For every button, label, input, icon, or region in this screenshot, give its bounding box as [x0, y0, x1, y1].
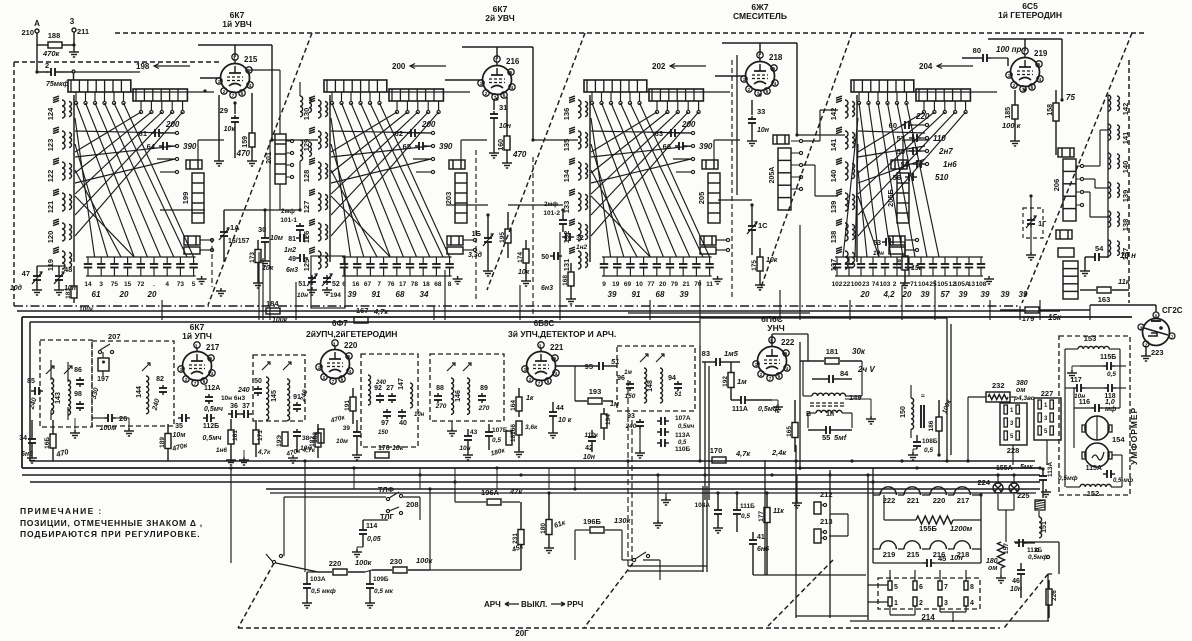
svg-text:39: 39 [959, 290, 968, 299]
capacitor 35 10m [178, 417, 182, 419]
svg-text:67: 67 [364, 281, 372, 288]
svg-text:2ч V: 2ч V [857, 365, 875, 374]
capacitor 64 [159, 145, 163, 147]
svg-text:19: 19 [612, 281, 620, 288]
trimmer 48 [58, 273, 60, 276]
svg-text:УМФОРМЕР: УМФОРМЕР [1129, 407, 1139, 465]
lamp 225 [1009, 483, 1019, 493]
gang link dash line [211, 238, 213, 287]
bus line 4 [270, 492, 1036, 494]
coil 119 [62, 251, 65, 269]
svg-text:194: 194 [330, 292, 341, 299]
svg-text:84: 84 [840, 369, 849, 378]
svg-text:203: 203 [444, 192, 453, 205]
capacitor 107A [657, 420, 661, 422]
bus line 1 [22, 474, 1040, 476]
wires can1 [50, 360, 52, 380]
svg-text:110: 110 [933, 134, 946, 143]
choke 150 core bars [920, 405, 922, 428]
svg-text:0,5-мф: 0,5-мф [1113, 477, 1134, 484]
svg-text:192: 192 [722, 376, 729, 387]
svg-text:141: 141 [829, 139, 838, 152]
svg-text:197: 197 [97, 376, 109, 383]
dashed bottom slant 2 [584, 563, 633, 628]
svg-text:164: 164 [510, 400, 517, 411]
resistor 168 [568, 272, 574, 286]
svg-text:81: 81 [288, 236, 296, 243]
tube 217 6K7 1st IF amp [183, 352, 212, 381]
svg-text:198: 198 [136, 62, 150, 71]
svg-text:270: 270 [435, 403, 447, 410]
svg-text:100к: 100к [355, 558, 373, 567]
coil 142 (output) [1108, 95, 1111, 111]
contacts 201 [290, 139, 293, 142]
svg-text:ом: ом [1016, 387, 1026, 394]
svg-text:47к: 47к [509, 487, 523, 496]
svg-text:34: 34 [420, 290, 429, 299]
wire 222 anode top [771, 334, 773, 344]
svg-text:390: 390 [699, 142, 713, 151]
capacitor 107B 0.5mf [488, 429, 490, 432]
svg-text:10н: 10н [499, 123, 512, 130]
svg-text:18: 18 [423, 281, 431, 288]
svg-text:113А: 113А [1047, 462, 1054, 477]
wire bottom left switch [276, 563, 318, 572]
shield dashed vertical S3 [731, 60, 733, 300]
svg-text:149: 149 [849, 393, 862, 402]
coil 122 [62, 162, 65, 180]
capacitor 80 100pr [979, 57, 983, 59]
svg-text:157: 157 [1003, 543, 1010, 554]
svg-text:10н: 10н [583, 454, 596, 461]
choke 150 [911, 398, 914, 429]
capacitor 118 [1104, 387, 1108, 389]
svg-text:0,5мф: 0,5мф [1028, 554, 1048, 561]
capacitor 39 10m [356, 429, 358, 432]
svg-text:5мк: 5мк [1020, 464, 1033, 471]
coil 141 [845, 131, 848, 149]
tube 216 6K7 2nd RF amp [483, 66, 512, 95]
svg-text:97: 97 [381, 420, 389, 427]
svg-text:4,2: 4,2 [882, 290, 895, 299]
coil 132 [578, 223, 581, 241]
switch contacts ARCh [632, 558, 635, 561]
motor 154 lower [1085, 443, 1109, 467]
wires 205A to S4 coils [803, 140, 820, 142]
svg-text:217: 217 [957, 496, 970, 505]
coil 135 [578, 131, 581, 149]
svg-text:112А: 112А [204, 385, 220, 392]
svg-text:20: 20 [860, 290, 870, 299]
svg-text:51: 51 [611, 357, 619, 366]
resistor 220 100k [333, 569, 347, 575]
svg-text:77: 77 [647, 281, 655, 288]
coil 133 [578, 193, 581, 211]
trimmer capacitor row [342, 256, 452, 258]
switch contacts [74, 101, 77, 104]
svg-text:202: 202 [652, 62, 666, 71]
motor 154 upper [1085, 416, 1109, 440]
svg-text:1к: 1к [526, 395, 534, 402]
svg-text:143: 143 [55, 392, 62, 404]
resistor 181 30k [825, 358, 839, 364]
switch contacts 2 [139, 110, 142, 113]
capacitor 97 150 [386, 409, 388, 412]
capacitor 114 0.05 [362, 527, 364, 530]
capacitor 62 [407, 132, 411, 134]
coil pack 205 [708, 173, 720, 223]
svg-text:76: 76 [387, 281, 395, 288]
svg-text:36: 36 [230, 403, 238, 410]
connector pin 8 [964, 581, 968, 590]
ground in switch box [665, 493, 667, 497]
capacitor 29 10k [234, 115, 236, 118]
svg-text:1С: 1С [758, 221, 768, 230]
svg-text:1н2: 1н2 [284, 247, 296, 254]
svg-text:92: 92 [374, 385, 382, 392]
svg-text:2: 2 [45, 61, 49, 70]
switch contacts [590, 101, 593, 104]
wire bottom bus to connector area [850, 620, 1049, 622]
capacitor 83 1m5 [712, 361, 716, 363]
switch contacts 2 [655, 110, 658, 113]
svg-text:196Б: 196Б [583, 517, 602, 526]
svg-text:150: 150 [900, 406, 907, 418]
svg-text:173: 173 [249, 252, 256, 263]
wire lattice [859, 103, 879, 257]
svg-text:мф: мф [1105, 406, 1116, 413]
svg-text:79: 79 [671, 281, 679, 288]
coil pack 199 [192, 173, 204, 223]
svg-text:129: 129 [302, 139, 311, 152]
svg-text:114: 114 [366, 523, 377, 530]
svg-text:7: 7 [944, 584, 948, 591]
svg-text:111А: 111А [732, 406, 748, 413]
svg-text:161: 161 [232, 430, 239, 441]
wire tube 215 anode [234, 45, 236, 57]
wire wafer to tube grid [386, 91, 470, 93]
coil 128 [318, 162, 321, 180]
svg-text:89: 89 [480, 385, 488, 392]
svg-text:100м: 100м [100, 425, 118, 432]
capacitor 44 10k [552, 409, 554, 412]
UNCh enclosure top line [628, 312, 810, 314]
coil 134 [578, 162, 581, 180]
switch contacts 2 [922, 110, 925, 113]
wires 206 to coils [1084, 165, 1100, 167]
svg-text:10н: 10н [414, 412, 425, 418]
svg-text:100к: 100к [416, 556, 434, 565]
choke 152 [1080, 484, 1111, 487]
coil pack 201 [275, 134, 286, 184]
trimmer 1A 16/157 gang capacitor [223, 229, 225, 232]
svg-text:33: 33 [757, 107, 765, 116]
svg-text:68: 68 [396, 290, 405, 299]
svg-text:21: 21 [683, 281, 691, 288]
IF transformer can 4 (146) [430, 354, 504, 421]
capacitor 65 [415, 145, 419, 147]
wire cathode [218, 95, 220, 158]
resistor 171 [253, 430, 259, 444]
contacts 205A [799, 139, 802, 142]
svg-text:1м: 1м [624, 370, 632, 376]
svg-text:91: 91 [632, 290, 641, 299]
resistor 167 4.7k [354, 317, 368, 323]
svg-text:194: 194 [605, 414, 612, 425]
svg-text:0,5: 0,5 [492, 437, 501, 444]
2nd heterodyne coil box [361, 354, 418, 447]
capacitor 111A 0.5mf [737, 399, 741, 401]
svg-text:41: 41 [757, 534, 765, 541]
resistor 193 [588, 398, 602, 404]
dashed separator S4 right [1022, 33, 1132, 303]
svg-text:60: 60 [889, 121, 897, 130]
svg-text:8: 8 [970, 584, 974, 591]
antenna terminal A 210 [35, 29, 39, 33]
svg-text:105: 105 [937, 281, 948, 288]
capacitor 116 1.0mf [1091, 407, 1095, 409]
svg-text:210: 210 [21, 28, 34, 37]
capacitor 31 10n [493, 111, 495, 114]
capacitor 66 [675, 145, 679, 147]
svg-text:216: 216 [506, 57, 520, 66]
svg-text:5: 5 [192, 281, 196, 288]
svg-text:205Б: 205Б [886, 188, 895, 207]
svg-text:1й УПЧ: 1й УПЧ [182, 331, 212, 341]
svg-text:0,05: 0,05 [367, 536, 381, 543]
band switch wafer S2-1 [324, 80, 387, 92]
svg-text:206: 206 [1052, 179, 1061, 192]
dashed bottom slant 4 [1004, 574, 1048, 628]
svg-text:108Б: 108Б [922, 438, 938, 445]
svg-text:147: 147 [398, 378, 405, 390]
svg-text:184: 184 [266, 299, 279, 308]
svg-text:10к: 10к [262, 265, 274, 272]
resistor 185 100k [1012, 105, 1018, 119]
svg-text:102: 102 [832, 281, 843, 288]
resistor 182 [315, 433, 321, 447]
svg-text:57: 57 [941, 290, 950, 299]
resistor 183 [71, 286, 77, 298]
svg-text:11к: 11к [1118, 277, 1131, 286]
resistor 178 15k [902, 256, 908, 270]
svg-text:15к: 15к [911, 265, 923, 272]
wire output coil bus [1107, 95, 1109, 258]
svg-text:82: 82 [156, 376, 164, 383]
svg-text:150: 150 [625, 393, 636, 400]
junction dots [229, 466, 232, 469]
resistor 175 10k [757, 257, 763, 271]
coil pack 205A [778, 148, 791, 210]
svg-text:154: 154 [1112, 435, 1125, 444]
svg-text:180: 180 [986, 558, 998, 565]
svg-text:185: 185 [1005, 107, 1012, 119]
dashed separator S3/S4 [760, 33, 852, 290]
wire lattice [592, 103, 650, 257]
svg-text:10д: 10д [10, 284, 23, 292]
svg-text:205: 205 [697, 192, 706, 205]
connector block 206 bottom [1056, 230, 1072, 239]
svg-text:123: 123 [46, 139, 55, 152]
wire verticals S1 to strip [258, 252, 260, 320]
svg-text:4,7к: 4,7к [257, 449, 271, 456]
svg-text:0,5: 0,5 [1107, 371, 1116, 378]
svg-text:48: 48 [64, 265, 72, 274]
svg-text:74: 74 [872, 281, 880, 288]
svg-text:10м: 10м [173, 432, 187, 439]
svg-text:182: 182 [312, 432, 319, 443]
capacitor 95 51 [595, 365, 599, 367]
resistor 102 4.7k [318, 429, 324, 443]
resistor 126 10k [375, 452, 389, 458]
coil pack 206 [1063, 159, 1076, 221]
svg-text:220: 220 [915, 112, 930, 121]
ground right of transformer [845, 398, 871, 400]
capacitor 113A 0.5 [657, 431, 661, 433]
ground [218, 158, 220, 161]
capacitor 32 1n2 [562, 236, 566, 238]
svg-text:2мф: 2мф [281, 208, 295, 215]
svg-text:188: 188 [48, 31, 61, 40]
svg-text:УНЧ: УНЧ [767, 323, 784, 333]
resistor 187 180k [506, 431, 512, 445]
svg-text:115Б: 115Б [1100, 354, 1116, 361]
svg-text:11к: 11к [773, 508, 784, 515]
capacitor 45 10n [923, 562, 927, 564]
svg-text:135: 135 [562, 139, 571, 152]
svg-text:1,0: 1,0 [1105, 399, 1115, 406]
svg-text:155Б: 155Б [919, 524, 938, 533]
tube 218 6Zh7 mixer [746, 62, 775, 91]
svg-text:152: 152 [1087, 489, 1100, 498]
svg-text:186: 186 [928, 420, 935, 431]
svg-text:23: 23 [862, 281, 870, 288]
svg-text:160: 160 [498, 139, 505, 151]
tube 222 6P6S output [758, 347, 787, 376]
connector block 2 [184, 236, 200, 245]
svg-text:200: 200 [421, 120, 436, 129]
capacitor 41 6n6 [752, 537, 754, 540]
svg-text:470: 470 [236, 149, 251, 158]
coil 147 windings [368, 375, 371, 405]
svg-text:10: 10 [636, 281, 644, 288]
svg-text:146: 146 [455, 390, 462, 402]
svg-text:3,6к: 3,6к [525, 424, 538, 431]
svg-text:20: 20 [902, 290, 912, 299]
svg-text:218: 218 [769, 53, 783, 62]
svg-text:200: 200 [392, 62, 406, 71]
coil 141 (output) [1108, 124, 1111, 140]
svg-text:96: 96 [617, 375, 625, 382]
trimmer 52 [326, 275, 328, 278]
resistor 161 [228, 430, 234, 444]
svg-text:51: 51 [674, 391, 682, 398]
svg-text:170: 170 [710, 446, 723, 455]
svg-text:1200м: 1200м [950, 524, 973, 533]
coil 131 [578, 251, 581, 269]
capacitor 111B 0.5 [736, 507, 738, 510]
svg-text:240: 240 [375, 380, 387, 386]
dashed bottom slant 3 [768, 560, 833, 626]
svg-text:113А: 113А [675, 432, 690, 439]
ground [751, 138, 753, 141]
svg-text:85: 85 [27, 378, 35, 385]
svg-text:1н6: 1н6 [943, 160, 957, 169]
dashed bottom border [238, 627, 1000, 629]
svg-text:4,7к: 4,7к [302, 447, 316, 454]
coil 127 [318, 193, 321, 211]
svg-text:2йУПЧ,2йГЕТЕРОДИН: 2йУПЧ,2йГЕТЕРОДИН [306, 329, 397, 339]
coil 129 [318, 131, 321, 149]
coil 137 [845, 251, 848, 269]
svg-text:215: 215 [244, 55, 258, 64]
svg-text:22: 22 [843, 281, 851, 288]
enclosure verticals right [946, 318, 948, 460]
wire wafer to tube grid [130, 91, 214, 93]
coupling coil S2 input [300, 96, 303, 117]
svg-text:108: 108 [976, 281, 987, 288]
svg-text:6: 6 [342, 281, 346, 288]
coil pack 203 [455, 173, 467, 223]
connector pin 1 [888, 597, 892, 606]
wire lattice [332, 103, 390, 257]
svg-text:510: 510 [935, 173, 949, 182]
capacitor 81 1n2 [296, 237, 300, 239]
svg-text:ом: ом [988, 565, 998, 572]
capacitor 57 [909, 137, 913, 139]
svg-text:166: 166 [510, 424, 517, 435]
svg-text:138: 138 [1121, 219, 1130, 232]
svg-text:163: 163 [1098, 295, 1111, 304]
svg-text:49: 49 [288, 256, 296, 263]
svg-text:61: 61 [92, 290, 101, 299]
svg-text:200: 200 [681, 120, 696, 129]
coil 139 (output) [1108, 182, 1111, 198]
wire verticals below strip [353, 468, 355, 489]
svg-text:39: 39 [348, 290, 357, 299]
capacitor 60 [901, 124, 905, 126]
coil 138 (output) [1108, 211, 1111, 227]
svg-text:10м: 10м [336, 438, 348, 445]
dashed chassis border top [115, 32, 1145, 34]
svg-text:189: 189 [159, 437, 166, 448]
svg-text:196А: 196А [481, 488, 500, 497]
svg-text:≈: ≈ [921, 393, 925, 400]
coil 136 [578, 100, 581, 118]
svg-text:10н: 10н [757, 127, 770, 134]
capacitor 49 6n3 [296, 257, 300, 259]
wire heterodyne anode [1024, 39, 1026, 51]
resistor 180 61k [546, 520, 552, 535]
svg-text:39: 39 [921, 290, 930, 299]
wire lattice [76, 103, 134, 257]
wires bottom middle verticals [230, 468, 232, 563]
svg-text:20: 20 [147, 290, 157, 299]
svg-text:91: 91 [372, 290, 381, 299]
capacitor 38 10m [296, 429, 298, 432]
coil 126 [318, 223, 321, 241]
svg-text:139: 139 [829, 201, 838, 214]
svg-text:46: 46 [1012, 578, 1020, 585]
dashed border right vertical [1128, 60, 1130, 303]
svg-text:115А: 115А [1086, 465, 1102, 472]
svg-text:64: 64 [147, 142, 156, 151]
capacitor 53 10n [882, 241, 886, 243]
IF strip bottom lines [22, 467, 1040, 469]
svg-text:25: 25 [929, 281, 937, 288]
svg-text:32: 32 [576, 235, 584, 242]
svg-text:5: 5 [894, 584, 898, 591]
